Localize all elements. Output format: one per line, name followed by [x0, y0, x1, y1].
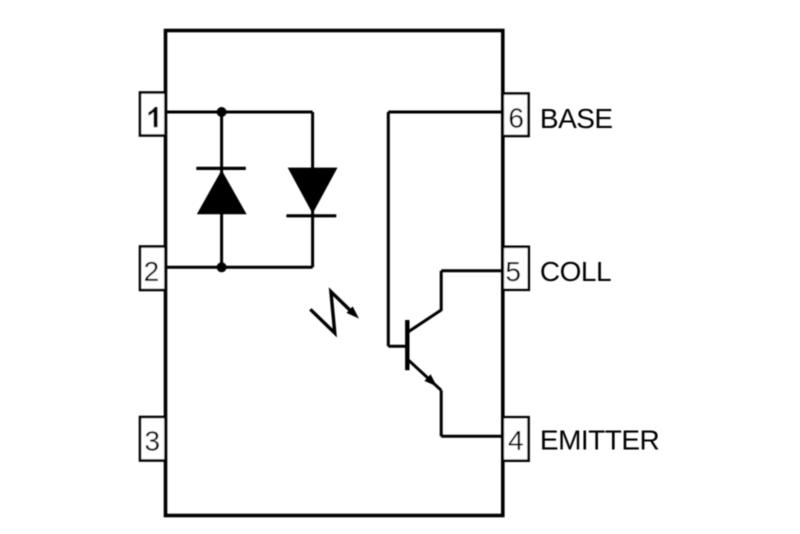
svg-text:COLL: COLL: [540, 256, 611, 287]
LED D2 triangle: [288, 168, 338, 214]
wire emitter to pin4: [441, 435, 503, 438]
pin 6 box: [503, 94, 529, 137]
svg-text:BASE: BASE: [540, 103, 613, 134]
LED D1 triangle: [197, 170, 247, 214]
transistor Q1 base bar: [405, 320, 409, 370]
pin 3 box: [140, 417, 166, 461]
transistor Q1 emitter arrowhead: [424, 374, 437, 386]
wire D1 vertical: [220, 112, 223, 267]
pin 4 box: [503, 417, 529, 461]
LED D2 cathode bar: [286, 214, 336, 217]
LED D1 cathode bar: [196, 167, 246, 170]
photon arrowhead: [347, 306, 360, 318]
svg-text:3: 3: [145, 426, 161, 457]
wire collector to pin5: [441, 269, 503, 272]
junction node at pin2 wire: [217, 262, 227, 272]
svg-text:2: 2: [144, 256, 160, 287]
wire D2 vertical: [311, 112, 314, 267]
wire pin6 horizontal: [388, 111, 503, 114]
svg-text:5: 5: [505, 256, 521, 287]
pin 5 box: [503, 247, 529, 290]
svg-text:4: 4: [508, 425, 524, 456]
IC body U1: [166, 31, 503, 516]
junction node at pin1 wire: [217, 107, 227, 117]
svg-text:EMITTER: EMITTER: [540, 425, 659, 456]
photon arrow zigzag: [310, 292, 350, 333]
transistor Q1 emitter diagonal: [407, 358, 442, 390]
pin 1 number: [148, 107, 157, 127]
pin 1 box: [140, 93, 166, 136]
svg-text:6: 6: [508, 102, 524, 133]
wire collector vertical: [440, 271, 443, 311]
wire pin2 to cathode node: [165, 266, 313, 269]
transistor Q1 collector diagonal: [407, 310, 442, 333]
wire base vertical: [387, 112, 390, 346]
wire pin1 to anode node: [165, 111, 313, 114]
pin 2 box: [140, 247, 166, 291]
wire emitter vertical: [440, 390, 443, 436]
wire base horizontal: [388, 345, 407, 348]
